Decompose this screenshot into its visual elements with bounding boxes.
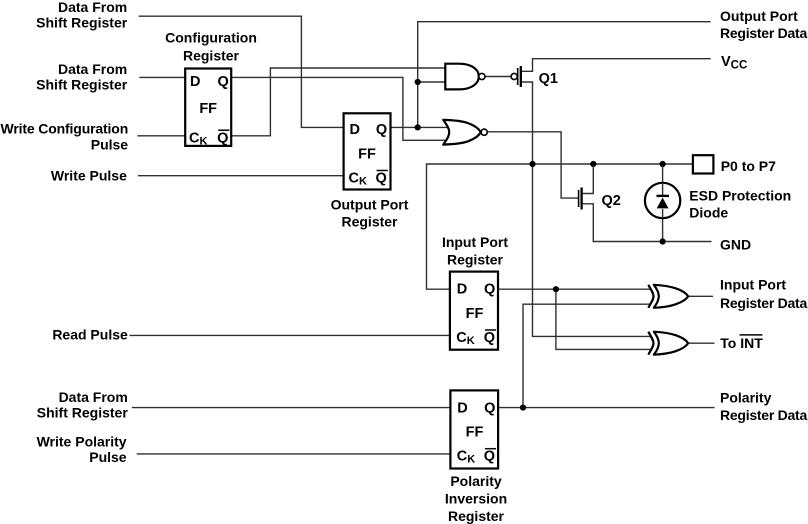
wire: polarity Q branch up to XOR1 lower input bbox=[523, 304, 651, 407]
wire: read pulse to input FF CK bbox=[130, 334, 452, 336]
label: Data From Shift Register (top) bbox=[36, 0, 128, 31]
svg-text:Data From: Data From bbox=[58, 61, 127, 77]
flip-flop U1 Configuration Register bbox=[185, 69, 231, 148]
svg-text:Shift Register: Shift Register bbox=[36, 15, 128, 31]
svg-text:Diode: Diode bbox=[689, 205, 728, 221]
svg-text:Q1: Q1 bbox=[539, 71, 558, 87]
svg-text:Register: Register bbox=[448, 508, 505, 524]
flip-flop U4 Polarity Inversion Register bbox=[450, 390, 498, 468]
svg-text:GND: GND bbox=[720, 236, 751, 252]
svg-text:Shift Register: Shift Register bbox=[36, 77, 128, 93]
wire: output FF Q to NOR upper input bbox=[391, 126, 449, 128]
svg-text:Q: Q bbox=[376, 122, 387, 138]
svg-text:Register Data: Register Data bbox=[720, 407, 807, 423]
svg-text:Q: Q bbox=[484, 449, 495, 465]
label: Input Port Register bbox=[442, 234, 508, 267]
svg-text:Write Configuration: Write Configuration bbox=[1, 121, 129, 137]
svg-text:Input Port: Input Port bbox=[720, 277, 786, 293]
svg-text:Polarity: Polarity bbox=[450, 473, 502, 489]
svg-text:Configuration: Configuration bbox=[165, 30, 257, 46]
gate: NOR G2 bbox=[443, 120, 487, 145]
pad: P0 to P7 square bbox=[693, 155, 714, 173]
svg-text:Output Port: Output Port bbox=[331, 196, 409, 212]
svg-text:Polarity: Polarity bbox=[720, 389, 772, 405]
wire: NOR output to Q2 gate bbox=[487, 132, 579, 198]
wire: polarity FF D input (data from shift register) bbox=[132, 407, 451, 409]
node: ESD / pad junction bbox=[660, 161, 666, 167]
transistor Q1 (PMOS) bbox=[511, 66, 558, 87]
wire: XOR2 output bbox=[688, 342, 715, 344]
wire: input FF Q branch to XOR2 lower input bbox=[556, 289, 651, 349]
node: Q2 drain / pad junction bbox=[590, 161, 596, 167]
label: Polarity Register Data bbox=[720, 389, 807, 422]
label: Data From Shift Register (second) bbox=[36, 61, 128, 93]
svg-text:Q2: Q2 bbox=[602, 193, 621, 209]
wire: config FF D input bbox=[139, 76, 185, 78]
svg-text:P0 to P7: P0 to P7 bbox=[721, 158, 776, 174]
label: Input Port Register Data bbox=[720, 277, 807, 311]
diode D1 ESD protection bbox=[645, 183, 680, 218]
svg-text:Pulse: Pulse bbox=[91, 136, 129, 152]
svg-text:Register Data: Register Data bbox=[720, 25, 807, 41]
wire: Q2 source to GND rail bbox=[581, 204, 711, 242]
svg-text:D: D bbox=[457, 401, 467, 417]
wire: polarity FF CK input (write polarity pulse) bbox=[137, 453, 451, 455]
label: ESD Protection Diode bbox=[689, 188, 791, 221]
label: Configuration Register bbox=[165, 30, 257, 64]
transistor Q2 (NMOS) bbox=[579, 188, 621, 210]
wire: write pulse to output FF CK bbox=[138, 175, 344, 177]
label: Output Port Register Data bbox=[720, 8, 807, 41]
svg-text:D: D bbox=[190, 74, 200, 90]
svg-text:D: D bbox=[457, 282, 467, 298]
svg-text:FF: FF bbox=[199, 101, 217, 117]
svg-text:Output Port: Output Port bbox=[720, 8, 798, 24]
gate: XOR G3 bbox=[648, 285, 688, 308]
node: ESD / GND junction bbox=[660, 238, 666, 244]
svg-text:FF: FF bbox=[466, 425, 484, 441]
svg-text:D: D bbox=[350, 122, 360, 138]
svg-text:Q: Q bbox=[218, 74, 229, 90]
label: Output Port Register bbox=[331, 196, 409, 229]
wire: ESD diode vertical connections bbox=[662, 164, 664, 196]
svg-text:Register: Register bbox=[341, 214, 398, 230]
svg-text:Register Data: Register Data bbox=[720, 295, 807, 311]
svg-text:FF: FF bbox=[358, 147, 376, 163]
wire: input FF Q to XOR1 upper input bbox=[498, 288, 651, 290]
svg-text:Write Pulse: Write Pulse bbox=[51, 167, 127, 183]
node: polarity FF Q junction bbox=[520, 405, 526, 411]
node: Q1 drain / pad junction bbox=[529, 161, 535, 167]
svg-text:Register: Register bbox=[447, 251, 504, 267]
wire: Q2 drain to pad line bbox=[581, 164, 593, 194]
svg-text:Write Polarity: Write Polarity bbox=[37, 433, 127, 449]
svg-text:Shift Register: Shift Register bbox=[37, 405, 129, 421]
wire: NAND output to Q1 gate bbox=[485, 76, 511, 78]
svg-text:Q: Q bbox=[376, 170, 387, 186]
svg-text:Register: Register bbox=[183, 47, 240, 63]
svg-text:Input Port: Input Port bbox=[442, 234, 508, 250]
junction dots bbox=[415, 79, 666, 411]
label: Write Polarity Pulse bbox=[37, 433, 127, 465]
svg-text:ESD Protection: ESD Protection bbox=[689, 188, 791, 204]
svg-text:Data From: Data From bbox=[59, 389, 128, 405]
wire: polarity FF Q to polarity register data bbox=[498, 407, 715, 409]
wire: config FF Q to NOR lower input bbox=[232, 77, 449, 140]
svg-text:Read Pulse: Read Pulse bbox=[52, 326, 128, 342]
node: output FF Q junction bbox=[415, 124, 421, 130]
wire: Q1 source rail down to pad and XOR2 upper input bbox=[521, 82, 651, 336]
svg-text:Pulse: Pulse bbox=[89, 449, 127, 465]
wire: Q1 drain to VCC rail bbox=[521, 59, 711, 72]
node: input FF Q junction bbox=[553, 286, 559, 292]
label: Data From Shift Register (bottom) bbox=[37, 389, 129, 421]
svg-text:Q: Q bbox=[484, 330, 495, 346]
svg-text:Q: Q bbox=[484, 282, 495, 298]
wire: config FF CK input (write configuration pulse) bbox=[137, 135, 185, 137]
flip-flop U2 Output Port Register bbox=[344, 113, 391, 189]
gate: NAND G1 bbox=[445, 64, 485, 90]
label: Write Configuration Pulse bbox=[1, 121, 129, 153]
svg-text:To INT: To INT bbox=[720, 335, 763, 351]
wire: output port register data net bbox=[418, 22, 711, 128]
label: Polarity Inversion Register bbox=[445, 473, 507, 524]
svg-text:Q: Q bbox=[217, 130, 228, 146]
svg-text:Inversion: Inversion bbox=[445, 491, 507, 507]
gate: XOR G4 bbox=[648, 332, 688, 355]
wire: pad line with branch to input FF D bbox=[427, 164, 693, 289]
flip-flop U3 Input Port Register bbox=[450, 272, 498, 350]
svg-text:FF: FF bbox=[466, 306, 484, 322]
node: NAND branch junction bbox=[415, 79, 421, 85]
svg-text:Data From: Data From bbox=[58, 0, 127, 15]
svg-text:Q: Q bbox=[484, 401, 495, 417]
svg-text:VCC: VCC bbox=[721, 54, 747, 72]
wire: NAND lower input branch bbox=[418, 81, 446, 83]
label: To INT (with overline) bbox=[720, 335, 763, 351]
wire: XOR1 output bbox=[688, 295, 713, 297]
wire: top data-from-shift-register to Output FF D bbox=[139, 16, 344, 127]
wire: config FF Qbar to NAND upper input bbox=[232, 68, 446, 136]
